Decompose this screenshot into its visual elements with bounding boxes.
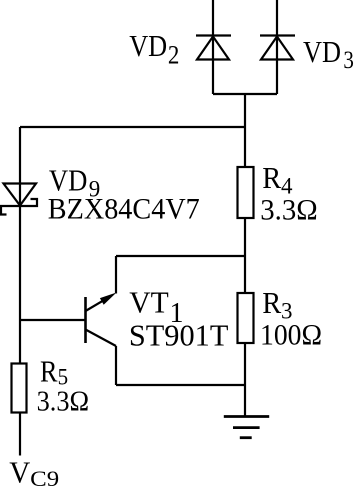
wire base	[20, 319, 86, 321]
wire rect top	[116, 255, 245, 257]
wire VD3 anode top	[276, 0, 278, 94]
wire VD2 anode top	[212, 0, 214, 94]
ground	[224, 417, 269, 438]
wire left rail	[19, 127, 21, 456]
svg-text:VD: VD	[303, 34, 341, 69]
diode VD2	[196, 36, 231, 60]
svg-text:R: R	[262, 160, 281, 195]
svg-text:R: R	[40, 354, 58, 389]
svg-text:ST901T: ST901T	[129, 318, 229, 353]
svg-text:R: R	[262, 285, 281, 320]
wire emitter vertical	[115, 256, 117, 294]
svg-text:100Ω: 100Ω	[260, 318, 322, 351]
diode VD3	[260, 36, 295, 60]
wire diode-output connector	[213, 93, 277, 95]
transistor VT1	[86, 293, 117, 347]
wire rect bottom	[116, 384, 245, 386]
svg-text:BZX84C4V7: BZX84C4V7	[48, 193, 200, 226]
svg-text:3.3Ω: 3.3Ω	[37, 386, 90, 418]
svg-text:2: 2	[168, 41, 180, 70]
svg-text:3.3Ω: 3.3Ω	[260, 193, 318, 226]
svg-text:VT: VT	[129, 285, 169, 320]
resistor R3	[238, 293, 254, 343]
svg-text:C9: C9	[30, 466, 59, 487]
wire center rail down from diodes	[244, 94, 246, 417]
svg-text:VD: VD	[129, 28, 167, 63]
svg-text:V: V	[9, 455, 31, 488]
zener diode VD9	[1, 184, 37, 215]
resistor R4	[238, 167, 254, 218]
wire top horizontal to left branch	[20, 126, 245, 128]
resistor R5	[12, 364, 27, 413]
wire collector vertical	[115, 346, 117, 385]
svg-text:3: 3	[343, 47, 354, 74]
